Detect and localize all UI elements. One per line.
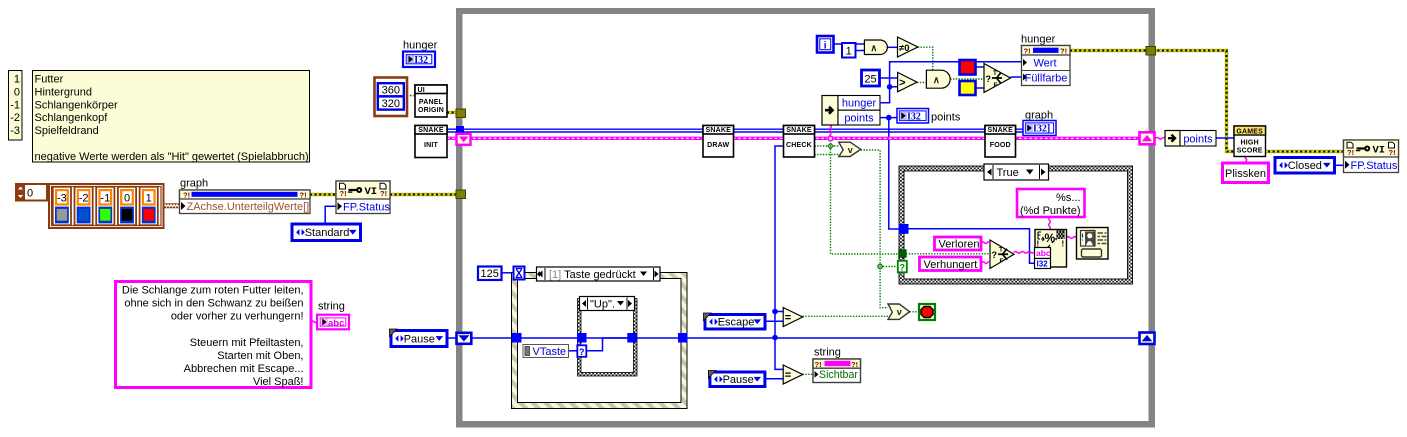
svg-text:-1: -1 [100, 193, 110, 205]
subVI: UI PANEL ORIGIN [415, 85, 447, 117]
svg-text:Steuern mit Pfeiltasten,: Steuern mit Pfeiltasten, [190, 337, 304, 349]
svg-text:?!: ?! [1389, 148, 1396, 157]
wire: blue AND to not-equal-0 [888, 46, 898, 48]
wire: blue Closed enum to FP.Status (right) [1335, 164, 1346, 166]
wire: green from tunnel to select2 s input inside True case [906, 253, 990, 255]
tunnels: blue on inner Up case borders [577, 333, 587, 343]
True case structure [899, 166, 1133, 284]
svg-text:DRAW: DRAW [707, 142, 729, 149]
svg-text:!: ! [1062, 240, 1065, 249]
event structure selector label [537, 267, 661, 281]
greater-than gate [898, 72, 917, 91]
enum constant: Standard [292, 224, 361, 241]
svg-text:-3: -3 [57, 193, 67, 205]
tunnel: error into loop (lower left) [456, 190, 466, 199]
not-equal-to-0 gate [898, 37, 918, 57]
svg-text:∧: ∧ [870, 43, 877, 54]
tunnel: green into True case [899, 250, 907, 257]
svg-text:?!: ?! [1024, 47, 1031, 56]
shift register: blue (snake data) left [456, 126, 464, 134]
svg-text:=: = [785, 369, 791, 381]
svg-text:Schlangenkopf: Schlangenkopf [35, 112, 109, 124]
array element 1: value -2 [75, 187, 93, 225]
enum constant: Closed [1275, 158, 1335, 174]
svg-text:[1] Taste gedrückt: [1] Taste gedrückt [549, 269, 636, 281]
cluster constant: 360 / 320 panel origin [375, 78, 408, 117]
color box constant: red [960, 60, 976, 75]
svg-text:negative Werte werden als "Hit: negative Werte werden als "Hit" gewertet… [35, 151, 309, 163]
svg-text:?: ? [900, 262, 906, 272]
svg-text:HIGH: HIGH [1241, 140, 1259, 147]
property node: hunger Wert/Fuellfarbe [1021, 34, 1070, 86]
timeout terminal (hourglass) on event structure [514, 267, 525, 280]
svg-text:?: ? [986, 74, 992, 84]
svg-text:True: True [997, 167, 1019, 179]
svg-text:Wert: Wert [1033, 58, 1056, 70]
wire: blue Pause enum to equals2 [765, 378, 783, 380]
svg-text:VTaste: VTaste [533, 346, 567, 358]
svg-text:0: 0 [27, 188, 33, 200]
svg-text:I32: I32 [1037, 260, 1049, 269]
svg-text:abc: abc [1036, 248, 1051, 258]
shift register: pink right, up arrow [1140, 132, 1155, 144]
wire: blue points unbundle to GAMES HIGH SCORE [1216, 137, 1234, 139]
svg-text:Abbrechen mit Escape...: Abbrechen mit Escape... [184, 363, 304, 375]
wire: green from not-equal-0 down to AND2 top [918, 47, 933, 70]
svg-text:0: 0 [124, 193, 130, 205]
svg-text:=: = [785, 312, 791, 324]
svg-text:points: points [931, 112, 961, 124]
svg-text:I32: I32 [414, 55, 428, 66]
AND gate (i AND 1) [864, 40, 887, 55]
wire: green SNAKE CHECK output 2 to OR1 lower input [815, 154, 840, 156]
svg-text:%s...: %s... [1056, 192, 1080, 204]
svg-text:GAMES: GAMES [1236, 128, 1263, 135]
svg-text:I32: I32 [907, 111, 921, 122]
svg-text:360: 360 [382, 85, 400, 97]
equals gate (pause) [783, 365, 803, 384]
wire: pink cluster from right shift register to points unbundle [1156, 138, 1166, 140]
svg-text:Viel Spaß!: Viel Spaß! [253, 376, 304, 388]
wire: green greater-than to AND2 [917, 81, 926, 83]
wire: green Escape comparison to OR2 lower input [803, 315, 888, 317]
enum constant: Pause (left) [390, 329, 448, 347]
stop terminal [919, 304, 935, 320]
string constant: game instructions [116, 282, 312, 389]
svg-text:i: i [824, 41, 827, 52]
svg-text:ORIGIN: ORIGIN [418, 107, 444, 114]
svg-text:Pause: Pause [404, 333, 435, 345]
svg-text:?!: ?! [300, 191, 307, 200]
indicator terminal: graph I32 array [1023, 110, 1056, 136]
svg-text:1: 1 [146, 193, 152, 205]
string constant: %s (%d Punkte) [1017, 189, 1085, 217]
svg-text:CHECK: CHECK [786, 142, 812, 149]
wire: blue from i terminal to AND gate [834, 43, 865, 45]
wire: blue red colorbox to select T [976, 66, 985, 68]
svg-text:Closed: Closed [1288, 160, 1322, 172]
svg-text:>: > [899, 77, 905, 89]
numeric constant 25 [862, 70, 880, 86]
svg-text:Pause: Pause [723, 374, 754, 386]
svg-text:hunger: hunger [842, 98, 877, 110]
format into string node [1035, 230, 1067, 269]
svg-text:graph: graph [180, 178, 208, 190]
svg-text:(%d Punkte): (%d Punkte) [1020, 205, 1081, 217]
svg-text:UI: UI [418, 87, 425, 94]
svg-text:F: F [1000, 258, 1004, 265]
svg-text:?!: ?! [340, 189, 347, 198]
tunnels: blue on event structure borders [512, 333, 522, 343]
svg-text:PANEL: PANEL [419, 99, 444, 106]
wire: green AND2 to select s input [950, 78, 984, 80]
numeric constant 125 [478, 267, 502, 281]
svg-text:v: v [848, 145, 853, 155]
array element 2: value -1 [96, 187, 114, 225]
numeric constant 1 [842, 43, 856, 58]
wire: blue constant 25 to greater-than [880, 77, 899, 79]
invoke node: VI FP.Status (right) [1344, 140, 1399, 173]
AND gate 2 (hunger check) [926, 70, 950, 88]
svg-text:?!: ?! [851, 360, 858, 369]
one button dialog node [1077, 228, 1109, 260]
svg-text:?: ? [579, 347, 585, 357]
svg-text:abc: abc [328, 318, 344, 329]
property node: string Sichtbar [813, 347, 861, 383]
svg-text:?: ? [992, 250, 998, 260]
unbundle by name: hunger / points [822, 96, 880, 126]
svg-text:oder vorher zu verhungern!: oder vorher zu verhungern! [171, 311, 304, 323]
wire: green OR2 to stop terminal [910, 311, 919, 313]
subVI: SNAKE DRAW [703, 126, 734, 158]
OR gate (check results) [839, 142, 861, 156]
free label: value list numbers [9, 71, 23, 141]
svg-text:Starten mit Oben,: Starten mit Oben, [217, 350, 303, 362]
string constant: Plissken [1223, 163, 1269, 183]
enum constant: Escape [704, 313, 766, 329]
wire: error cluster from VI invoke node to left loop tunnel [390, 193, 461, 196]
svg-text:INIT: INIT [424, 142, 439, 149]
svg-text:ZAchse.UnterteilgWerte[]: ZAchse.UnterteilgWerte[] [187, 201, 310, 213]
svg-text:∧: ∧ [933, 75, 940, 86]
inner case selector label [580, 297, 635, 311]
wire: green SNAKE CHECK output 1 to OR1 and down to True case green tunnel [815, 145, 839, 147]
wire: green OR1 output down to case selector and OR2 [861, 150, 888, 308]
svg-text:≠0: ≠0 [899, 43, 910, 54]
subVI: SNAKE FOOD [985, 126, 1016, 158]
wire: pink squiggle GAMES HIGH SCORE down to Plissken constant [1245, 157, 1247, 164]
svg-text:?!: ?! [1347, 148, 1354, 157]
svg-text:Spielfeldrand: Spielfeldrand [35, 125, 99, 137]
svg-text:Die Schlange zum roten Futter: Die Schlange zum roten Futter leiten, [122, 285, 304, 297]
subVI: SNAKE INIT [415, 126, 447, 158]
array element 4: value 1 [140, 187, 158, 225]
svg-text:VI: VI [365, 186, 378, 198]
shift register: blue right, up arrow [1140, 333, 1155, 345]
svg-text:Füllfarbe: Füllfarbe [1025, 73, 1068, 85]
wire: blue select output to Fuellfarbe input [1011, 76, 1022, 78]
array index 0 [16, 184, 47, 201]
junction: green diamond on CHECK output [827, 143, 834, 150]
svg-text:string: string [814, 347, 841, 359]
svg-text:SNAKE: SNAKE [705, 127, 731, 134]
wire: brown cluster constant 360/320 to UI PANEL ORIGIN [407, 95, 416, 97]
svg-text:hunger: hunger [403, 40, 438, 52]
wire: main double blue (snake data) from SNAKE INIT across loop to graph terminal [447, 128, 1023, 130]
enum constant: Pause (comparison) [708, 371, 765, 387]
svg-text:SNAKE: SNAKE [987, 127, 1013, 134]
shift register: blue (pause enum) left, down arrow [457, 333, 472, 344]
True case selector label [984, 164, 1049, 180]
color box constant: yellow [960, 81, 976, 95]
control terminal: hunger I32 [403, 40, 438, 68]
case selector terminal ? (Up case) [577, 345, 586, 357]
svg-text:Standard: Standard [305, 227, 350, 239]
svg-text:-1: -1 [10, 99, 20, 111]
svg-text:string: string [318, 301, 345, 313]
svg-text:-3: -3 [10, 125, 20, 137]
wire: pink squiggle instruction text to string abc terminal [311, 321, 317, 323]
svg-text:VI: VI [1373, 145, 1386, 157]
string terminal: abc [317, 301, 349, 330]
svg-text:Verhungert: Verhungert [924, 259, 978, 271]
tunnel: error out of loop (right) [1146, 47, 1156, 56]
svg-text:I32]: I32] [1033, 124, 1050, 135]
wire: green Pause comparison to Sichtbar property [803, 373, 813, 375]
svg-text:T: T [999, 246, 1003, 253]
wire: branch to greater-than lower input [890, 86, 898, 88]
tunnel: error into loop (upper left) [456, 109, 466, 118]
subVI: SNAKE CHECK [784, 126, 815, 158]
wire: blue yellow colorbox to select F [976, 87, 985, 89]
svg-text:Schlangenkörper: Schlangenkörper [35, 99, 119, 111]
svg-text:graph: graph [1025, 110, 1053, 122]
svg-text:FP.Status: FP.Status [343, 201, 390, 213]
svg-text:%: % [1045, 231, 1056, 245]
subVI: GAMES HIGH SCORE [1234, 126, 1266, 157]
wire: blue stub junction to Escape equals [775, 311, 783, 313]
unbundle by name: points (right) [1165, 131, 1216, 147]
wire: blue hunger value up to Wert input (passes behind red colorbox) [880, 62, 1022, 103]
svg-text:1: 1 [14, 74, 20, 86]
svg-text:?!: ?! [183, 191, 190, 200]
wire: blue 125 to timeout terminal [502, 272, 514, 274]
iteration terminal i [817, 36, 834, 53]
array element 0: value -3 [53, 187, 71, 225]
svg-text:?!: ?! [380, 189, 387, 198]
svg-text:Futter: Futter [35, 74, 64, 86]
wire: blue inside Up case [586, 338, 628, 351]
svg-text:-2: -2 [10, 112, 20, 124]
svg-text:0: 0 [14, 86, 20, 98]
svg-text:SCORE: SCORE [1237, 148, 1263, 155]
indicator terminal: points I32 [897, 109, 929, 124]
select node 2 (Verloren/Verhungert) [990, 240, 1014, 269]
svg-text:125: 125 [481, 268, 499, 280]
wire: blue Standard enum to FP.Status [325, 206, 337, 224]
svg-text:-2: -2 [79, 193, 89, 205]
wire: blue Escape enum to equals [765, 320, 783, 322]
svg-text:FP.Status: FP.Status [1351, 160, 1398, 172]
svg-text:ohne sich in den Schwanz zu be: ohne sich in den Schwanz zu beißen [124, 298, 303, 310]
svg-text:FOOD: FOOD [990, 142, 1011, 149]
inner case structure (Up) [578, 299, 638, 377]
svg-text:hunger: hunger [1021, 34, 1056, 46]
property node: graph ZAchse.UnterteilgWerte[] [180, 178, 311, 214]
svg-text:25: 25 [864, 74, 876, 86]
svg-text:points: points [844, 112, 874, 124]
svg-text:Verloren: Verloren [939, 239, 980, 251]
wire: blue VTaste to case selector [569, 350, 578, 352]
wire: error cluster from ZAchse property node to VI invoke node [310, 193, 336, 196]
case selector terminal ? (True case) [898, 261, 907, 273]
array element 3: value 0 [118, 187, 136, 225]
wire: blue from constant 1 to AND gate [856, 50, 865, 52]
svg-text:Plissken: Plissken [1225, 168, 1266, 180]
while loop frame [456, 8, 1155, 428]
svg-text:320: 320 [382, 98, 400, 110]
wire: blue bottom Pause enum main line across loop [447, 337, 462, 339]
OR gate 2 (stop condition) [888, 304, 910, 319]
svg-text:SNAKE: SNAKE [418, 127, 444, 134]
wire: error cluster from UI PANEL ORIGIN to left loop tunnel [447, 111, 461, 114]
svg-text:?!: ?! [815, 360, 822, 369]
wire: pink squiggle from main pink wire up into hunger/points unbundle [830, 125, 832, 138]
string constant: Verhungert [920, 257, 982, 271]
shift register: pink (game state) left, down arrow [457, 134, 471, 145]
event data node: VTaste [523, 345, 569, 359]
svg-text:SNAKE: SNAKE [786, 127, 812, 134]
string constant: Verloren [935, 237, 982, 251]
equals gate (escape) [783, 308, 803, 327]
svg-text:?!: ?! [1060, 47, 1067, 56]
invoke node: VI FP.Status (left, outside loop) [336, 181, 390, 214]
svg-text:1: 1 [846, 46, 852, 58]
wire: pink squiggles to/from format node [982, 242, 990, 244]
event structure frame [512, 273, 688, 409]
wire: blue points row to points indicator and down into True case tunnel then to Format node [880, 117, 897, 119]
wire: main pink cluster wire (game state) from SNAKE INIT across loop to right shift register [447, 137, 1140, 140]
wire: blue vertical Escape/Pause enum distribution to SNAKE CHECK [775, 146, 784, 369]
svg-text:"Up".: "Up". [590, 299, 615, 311]
svg-text:v: v [897, 307, 902, 317]
array constant of 5 color clusters [49, 184, 164, 228]
svg-text:points: points [1183, 133, 1213, 145]
svg-text:Sichtbar: Sichtbar [819, 369, 858, 381]
select node (hunger color) [984, 64, 1011, 93]
tunnel: blue into True case [899, 224, 909, 234]
svg-text:Escape: Escape [718, 317, 755, 329]
svg-text:Hintergrund: Hintergrund [35, 86, 92, 98]
free label: legend text box [33, 71, 310, 163]
wire: array of color clusters to ZAchse property node (brown zigzag) [164, 203, 181, 208]
svg-text:T: T [993, 70, 997, 77]
wire: error cluster from hunger property node through right tunnel down to GAMES HIGH SCORE and VI invoke node [1070, 51, 1344, 152]
svg-text:F: F [994, 82, 998, 89]
